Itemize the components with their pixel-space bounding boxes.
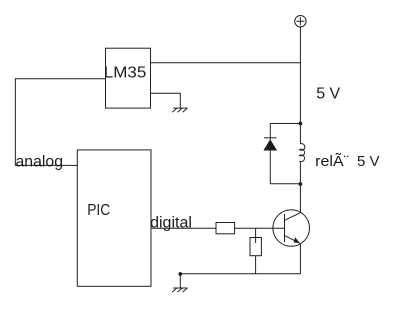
svg-text:digital: digital xyxy=(150,215,192,232)
node dot ground rail xyxy=(178,272,182,276)
svg-text:relÃ¨5 V: relÃ¨5 V xyxy=(315,153,379,170)
wire emitter to ground rail xyxy=(299,244,301,274)
PIC box U2 xyxy=(77,150,151,286)
wire digital: PIC out to resistor R1 xyxy=(151,227,216,229)
svg-text:5 V: 5 V xyxy=(316,86,340,103)
wire to bottom ground xyxy=(179,274,181,288)
supply terminal + xyxy=(295,16,306,27)
diode D1 xyxy=(263,138,277,151)
relay coil L1 xyxy=(300,144,305,162)
transistor Q1 xyxy=(273,210,310,247)
svg-text:LM35: LM35 xyxy=(104,65,147,82)
LM35 box U1 xyxy=(106,48,151,108)
wire LM35 to ground xyxy=(151,93,181,108)
wire LM35 Vcc to supply rail xyxy=(151,62,301,64)
node A dot xyxy=(299,122,303,126)
wire node A to relay coil xyxy=(299,124,301,144)
wire R1 to transistor base xyxy=(235,227,285,229)
ground (LM35) xyxy=(172,108,187,112)
node B dot xyxy=(299,182,303,186)
wire R2 to ground rail xyxy=(255,256,257,274)
diode branch bottom wire xyxy=(270,183,300,185)
wire ground rail xyxy=(180,273,300,275)
svg-text:analog: analog xyxy=(16,153,64,170)
diode branch top wire xyxy=(270,123,300,125)
wire coil to node B xyxy=(299,161,301,184)
resistor R1 xyxy=(216,223,235,234)
diode branch vertical wire xyxy=(269,124,271,184)
resistor R2 xyxy=(250,238,261,256)
wire supply to node A xyxy=(299,27,301,124)
wire node B to collector xyxy=(299,184,301,213)
svg-text:PIC: PIC xyxy=(87,202,110,219)
ground (bottom) xyxy=(172,288,187,292)
wire base node to R2 xyxy=(255,228,257,243)
wire analog: LM35 out to PIC input xyxy=(15,79,105,166)
